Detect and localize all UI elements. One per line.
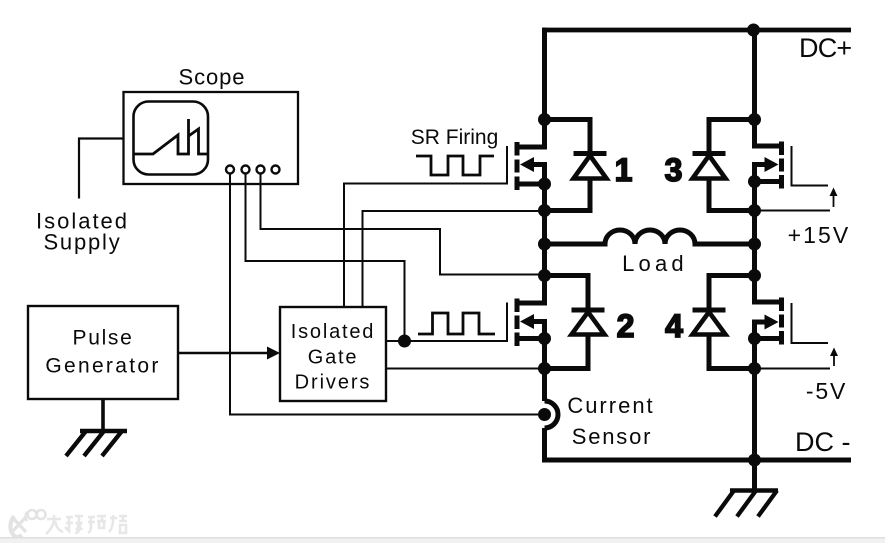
isolated gate drivers box U1 <box>280 307 386 401</box>
+15V arrow <box>830 188 838 208</box>
svg-text:-5V: -5V <box>806 378 847 404</box>
wire right leg between M3 source and M4 drain <box>755 182 781 303</box>
wire driver output A to M1 gate <box>344 146 507 307</box>
DC+ label <box>799 33 851 63</box>
wire driver output B to M1 source node <box>363 211 545 307</box>
node DC+ right leg junction <box>747 24 760 37</box>
transistor Q2 (MOSFET 2) <box>517 299 545 347</box>
node M2 source junction <box>538 332 551 345</box>
wire right leg below M4 to DC- <box>752 339 757 461</box>
scope trace <box>134 119 208 154</box>
svg-text:Supply: Supply <box>43 230 121 255</box>
svg-text:Load: Load <box>622 251 688 276</box>
wire right leg upper (DC+ to M3 drain) <box>755 28 781 146</box>
label 2 <box>617 308 635 344</box>
node load right junction <box>748 238 761 251</box>
diode D1 <box>545 120 607 211</box>
wire scope pin3 to M2 drain node <box>261 174 545 275</box>
scope screen <box>134 102 209 175</box>
transistor Q3 (MOSFET 3) <box>755 142 782 189</box>
svg-text:3: 3 <box>665 152 683 188</box>
wire left leg to DC- rail <box>542 428 547 460</box>
node diode3 bottom junction <box>748 204 761 217</box>
DC+ rail <box>542 28 851 33</box>
wire left leg below M2 <box>542 339 547 402</box>
node M4 drain junction <box>748 269 761 282</box>
transistor Q1 (MOSFET 1) <box>517 142 545 190</box>
node M4 source junction <box>748 332 761 345</box>
wire M4 source bias line <box>755 368 831 370</box>
wire M4 gate bias line <box>792 303 829 343</box>
svg-text:DC -: DC - <box>795 427 851 457</box>
wire isolated supply stub <box>79 139 124 199</box>
label 3 <box>665 152 683 188</box>
label 4 <box>665 308 683 344</box>
node M1 drain junction <box>538 113 551 126</box>
node diode2 bottom junction <box>538 362 551 375</box>
wire driver output F to M2 source node <box>386 368 545 370</box>
-5V label <box>806 378 847 404</box>
inductor Load <box>545 230 755 276</box>
scope connector pin 3 <box>257 166 265 174</box>
scope connector pin 4 <box>272 166 280 174</box>
wire scope pin1 to current sensor probe <box>230 174 538 415</box>
scope connector pin 2 <box>242 166 250 174</box>
svg-text:Current: Current <box>567 393 654 418</box>
current sensor loop <box>545 401 559 428</box>
wire pulse generator to drivers with arrowhead <box>178 347 280 360</box>
watermark logo <box>10 510 45 537</box>
DC- rail <box>542 458 851 463</box>
transistor Q4 (MOSFET 4) <box>755 298 782 345</box>
gate pulse waveform glyph <box>418 313 495 334</box>
node M3 drain junction <box>748 113 761 126</box>
node current sensor probe <box>538 408 551 421</box>
DC- label <box>795 427 851 457</box>
scope box <box>124 92 299 184</box>
scope label <box>179 65 246 90</box>
bottom strip <box>0 537 885 543</box>
svg-text:Generator: Generator <box>45 355 160 378</box>
svg-text:1: 1 <box>615 152 633 188</box>
node Isolated Supply label <box>36 209 129 255</box>
node M1 source junction <box>538 178 551 191</box>
wire M3 gate bias line <box>792 146 829 186</box>
node diode1 bottom junction <box>538 204 551 217</box>
label 1 <box>615 152 633 188</box>
svg-text:Gate: Gate <box>308 347 359 369</box>
wire left leg upper (DC+ to M1 drain) <box>519 28 545 147</box>
+15V label <box>788 222 851 248</box>
node DC- right leg junction <box>748 454 761 467</box>
svg-text:Sensor: Sensor <box>572 424 653 449</box>
svg-text:Pulse: Pulse <box>72 327 133 350</box>
SR firing waveform glyph <box>416 156 494 175</box>
node load left junction <box>538 238 551 251</box>
wire M3 source bias line <box>755 210 831 212</box>
node M2 drain junction <box>538 269 551 282</box>
diode D3 <box>693 120 755 211</box>
SR Firing label <box>411 126 499 149</box>
node diode4 bottom junction <box>748 362 761 375</box>
diode D2 <box>545 276 605 369</box>
svg-text:4: 4 <box>665 308 683 344</box>
node junction on gate wire <box>398 335 411 348</box>
ground (DC- rail) <box>715 460 778 517</box>
wire left leg between M1 source and M2 drain <box>519 184 545 303</box>
svg-text:Scope: Scope <box>179 65 246 90</box>
watermark text <box>46 515 127 534</box>
Current Sensor label <box>567 393 654 449</box>
svg-text:2: 2 <box>617 308 635 344</box>
svg-text:Drivers: Drivers <box>295 372 372 394</box>
scope connector pin 1 <box>226 166 234 174</box>
node M3 source junction <box>748 175 761 188</box>
diode D4 <box>693 276 755 369</box>
wire scope pin2 to M2 gate drive node <box>246 174 405 342</box>
wire driver output E to M2 gate <box>386 303 507 342</box>
svg-text:DC+: DC+ <box>799 33 851 63</box>
ground (pulse generator) <box>66 399 127 456</box>
svg-text:+15V: +15V <box>788 222 851 248</box>
-5V arrow <box>830 348 838 367</box>
pulse generator box <box>28 306 178 399</box>
svg-text:SR Firing: SR Firing <box>411 126 499 149</box>
svg-text:Isolated: Isolated <box>291 321 375 343</box>
